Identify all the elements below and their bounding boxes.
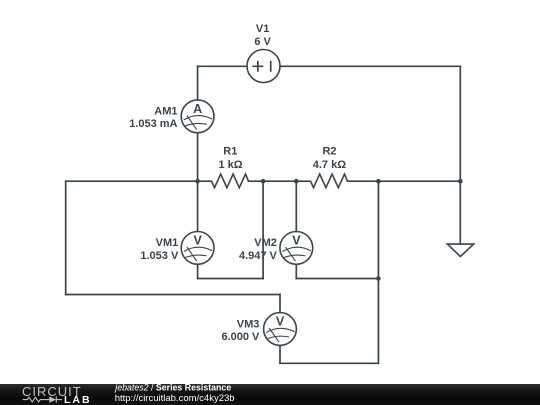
label AM1 value 1.053 mA <box>129 118 177 130</box>
svg-text:1.053 mA: 1.053 mA <box>129 118 177 130</box>
wire: AM1 bottom pin down to main node row <box>197 133 199 182</box>
wire: left rail horizontal to R1 left lead <box>66 180 212 182</box>
wire: right rail vertical down to ground <box>459 66 461 244</box>
junction dot: R1-right / VM1-bottom riser node <box>261 179 266 184</box>
label VM2 <box>254 237 277 249</box>
voltmeter VM1 <box>181 232 214 265</box>
wire: V1 right terminal to right rail <box>280 65 460 67</box>
wire: mid-right vertical from R2 right node down to VM3 net <box>377 181 379 363</box>
footer credit line: author / title <box>114 383 231 393</box>
label VM3 value 6.000 V <box>221 331 260 343</box>
wire: VM2 bottom horizontal to mid-right rail <box>296 278 378 280</box>
wire: VM3 bottom horizontal to right mid rail <box>280 362 378 364</box>
wire: top-left from AM1 branch to V1 left terminal <box>198 65 247 67</box>
svg-text:1 kΩ: 1 kΩ <box>218 159 242 171</box>
CircuitLab logo schematic squiggle (resistor + diode) <box>23 396 62 402</box>
svg-text:6 V: 6 V <box>254 36 271 48</box>
ground symbol <box>447 244 473 256</box>
label V1 value 6 V <box>254 36 271 48</box>
wire: R1 right lead to R2 left lead <box>249 180 311 182</box>
wire: VM1 bottom lead <box>197 264 199 278</box>
label VM1 <box>156 237 179 249</box>
label R1 value 1 kΩ <box>218 159 242 171</box>
label VM2 value 4.947 V <box>239 250 278 262</box>
svg-text:AM1: AM1 <box>154 106 177 118</box>
wire: VM3 bottom lead <box>279 345 281 363</box>
wire: vertical riser from VM1 bottom net to R1-R2 node <box>262 181 264 278</box>
wire: bottom-left horizontal to VM3 top branch <box>66 294 280 296</box>
svg-text:V: V <box>194 233 203 247</box>
svg-text:1.053 V: 1.053 V <box>140 250 179 262</box>
svg-text:R1: R1 <box>223 146 237 158</box>
svg-text:V: V <box>292 233 301 247</box>
junction dot: right rail / ground node <box>458 179 463 184</box>
wire: VM3 top lead <box>279 295 281 313</box>
label R1 <box>223 146 237 158</box>
voltmeter VM3 <box>264 313 297 346</box>
junction dot: R2-right node <box>376 179 381 184</box>
wire: VM2 top lead from node <box>295 181 297 231</box>
junction dot: VM2 top node <box>294 179 299 184</box>
svg-text:V: V <box>276 315 285 329</box>
wire: R2 right lead to right rail <box>348 180 461 182</box>
svg-text:6.000 V: 6.000 V <box>221 331 260 343</box>
CircuitLab logo wordmark LAB <box>64 394 92 405</box>
svg-text:VM2: VM2 <box>254 237 277 249</box>
wire: V1 branch down to AM1 top pin <box>197 66 199 100</box>
ammeter AM1 <box>181 100 214 133</box>
junction dot: VM2 bottom / VM3 rail node <box>376 276 381 281</box>
svg-text:4.7 kΩ: 4.7 kΩ <box>313 159 346 171</box>
svg-text:LAB: LAB <box>64 394 92 405</box>
wire: VM1 bottom horizontal to R1-R2 net <box>198 278 264 280</box>
svg-text:V1: V1 <box>256 23 269 35</box>
wire: VM2 bottom lead <box>295 264 297 278</box>
voltage source V1 <box>247 50 280 83</box>
label AM1 <box>154 106 177 118</box>
svg-text:4.947 V: 4.947 V <box>239 250 278 262</box>
footer URL line <box>115 393 235 404</box>
footer bar <box>0 384 540 405</box>
wire: VM1 top lead from node <box>197 181 199 231</box>
junction dot: AM1/VM1/R1-left node <box>195 179 200 184</box>
svg-text:VM3: VM3 <box>237 319 260 331</box>
label V1 <box>256 23 269 35</box>
svg-text:R2: R2 <box>322 146 336 158</box>
resistor R2 <box>311 174 348 188</box>
label VM3 <box>237 319 260 331</box>
svg-text:http://circuitlab.com/c4ky23b: http://circuitlab.com/c4ky23b <box>115 393 235 404</box>
label R2 <box>322 146 336 158</box>
svg-text:jebates2 / Series Resistance: jebates2 / Series Resistance <box>114 383 231 393</box>
CircuitLab logo wordmark CIRCUIT <box>22 384 82 399</box>
wire: left rail vertical <box>65 181 67 294</box>
voltmeter VM2 <box>280 232 313 265</box>
svg-text:A: A <box>193 102 202 116</box>
svg-text:VM1: VM1 <box>156 237 179 249</box>
resistor R1 <box>212 174 249 188</box>
label VM1 value 1.053 V <box>140 250 179 262</box>
label R2 value 4.7 kΩ <box>313 159 346 171</box>
